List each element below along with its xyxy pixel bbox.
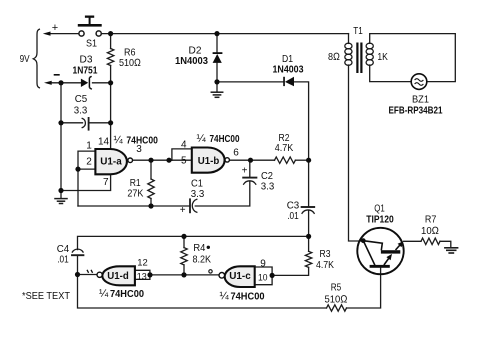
svg-text:R7: R7 bbox=[425, 214, 437, 226]
svg-text:U1-d: U1-d bbox=[107, 270, 129, 282]
svg-text:74HC00: 74HC00 bbox=[110, 288, 144, 300]
svg-text:4.7K: 4.7K bbox=[275, 142, 294, 154]
svg-text:10Ω: 10Ω bbox=[421, 225, 439, 237]
svg-text:4: 4 bbox=[181, 140, 187, 151]
svg-text:.01: .01 bbox=[57, 254, 69, 266]
svg-text:14: 14 bbox=[98, 137, 110, 148]
svg-text:12: 12 bbox=[137, 258, 148, 269]
svg-text:T1: T1 bbox=[353, 25, 363, 37]
svg-text:510Ω: 510Ω bbox=[325, 294, 348, 306]
svg-text:9: 9 bbox=[260, 259, 266, 270]
svg-text:2: 2 bbox=[86, 157, 92, 168]
svg-text:13: 13 bbox=[137, 272, 147, 283]
svg-text:74HC00: 74HC00 bbox=[210, 133, 240, 145]
svg-text:3.3: 3.3 bbox=[191, 188, 205, 200]
svg-text:R4: R4 bbox=[193, 242, 205, 254]
svg-text:¼: ¼ bbox=[99, 288, 109, 300]
svg-text:TIP120: TIP120 bbox=[366, 214, 394, 226]
svg-text:1N751: 1N751 bbox=[73, 65, 98, 77]
svg-text:27K: 27K bbox=[127, 188, 143, 200]
svg-text:6: 6 bbox=[233, 148, 239, 159]
svg-text:3.3: 3.3 bbox=[74, 105, 88, 117]
svg-text:1K: 1K bbox=[377, 51, 388, 63]
svg-text:U1-b: U1-b bbox=[198, 155, 220, 167]
svg-text:U1-a: U1-a bbox=[100, 155, 122, 167]
svg-text:510Ω: 510Ω bbox=[119, 57, 141, 69]
svg-text:C5: C5 bbox=[75, 93, 88, 105]
svg-text:+: + bbox=[180, 205, 186, 216]
svg-text:S1: S1 bbox=[86, 38, 97, 50]
svg-text:9V: 9V bbox=[20, 54, 30, 65]
svg-text:3: 3 bbox=[136, 144, 142, 155]
svg-text:EFB-RP34B21: EFB-RP34B21 bbox=[389, 105, 443, 117]
svg-text:74HC00: 74HC00 bbox=[231, 291, 265, 303]
svg-text:1N4003: 1N4003 bbox=[273, 64, 304, 76]
svg-text:*SEE TEXT: *SEE TEXT bbox=[22, 290, 71, 302]
svg-text:8Ω: 8Ω bbox=[328, 51, 340, 63]
svg-text:R5: R5 bbox=[331, 282, 342, 294]
svg-text:7: 7 bbox=[103, 177, 109, 188]
svg-text:+: + bbox=[242, 166, 248, 177]
svg-text:8.2K: 8.2K bbox=[193, 254, 212, 266]
svg-text:.01: .01 bbox=[287, 210, 299, 222]
svg-text:¼: ¼ bbox=[220, 291, 230, 303]
svg-text:4.7K: 4.7K bbox=[316, 259, 334, 271]
svg-text:3.3: 3.3 bbox=[261, 181, 275, 193]
svg-text:+: + bbox=[52, 22, 58, 34]
svg-text:5: 5 bbox=[181, 156, 187, 167]
svg-text:10: 10 bbox=[258, 273, 268, 284]
svg-text:U1-c: U1-c bbox=[229, 270, 251, 282]
svg-text:1: 1 bbox=[86, 140, 92, 151]
svg-text:¼: ¼ bbox=[197, 133, 207, 145]
svg-text:¼: ¼ bbox=[114, 135, 124, 147]
svg-text:1N4003: 1N4003 bbox=[175, 55, 208, 67]
svg-text:74HC00: 74HC00 bbox=[126, 135, 158, 147]
